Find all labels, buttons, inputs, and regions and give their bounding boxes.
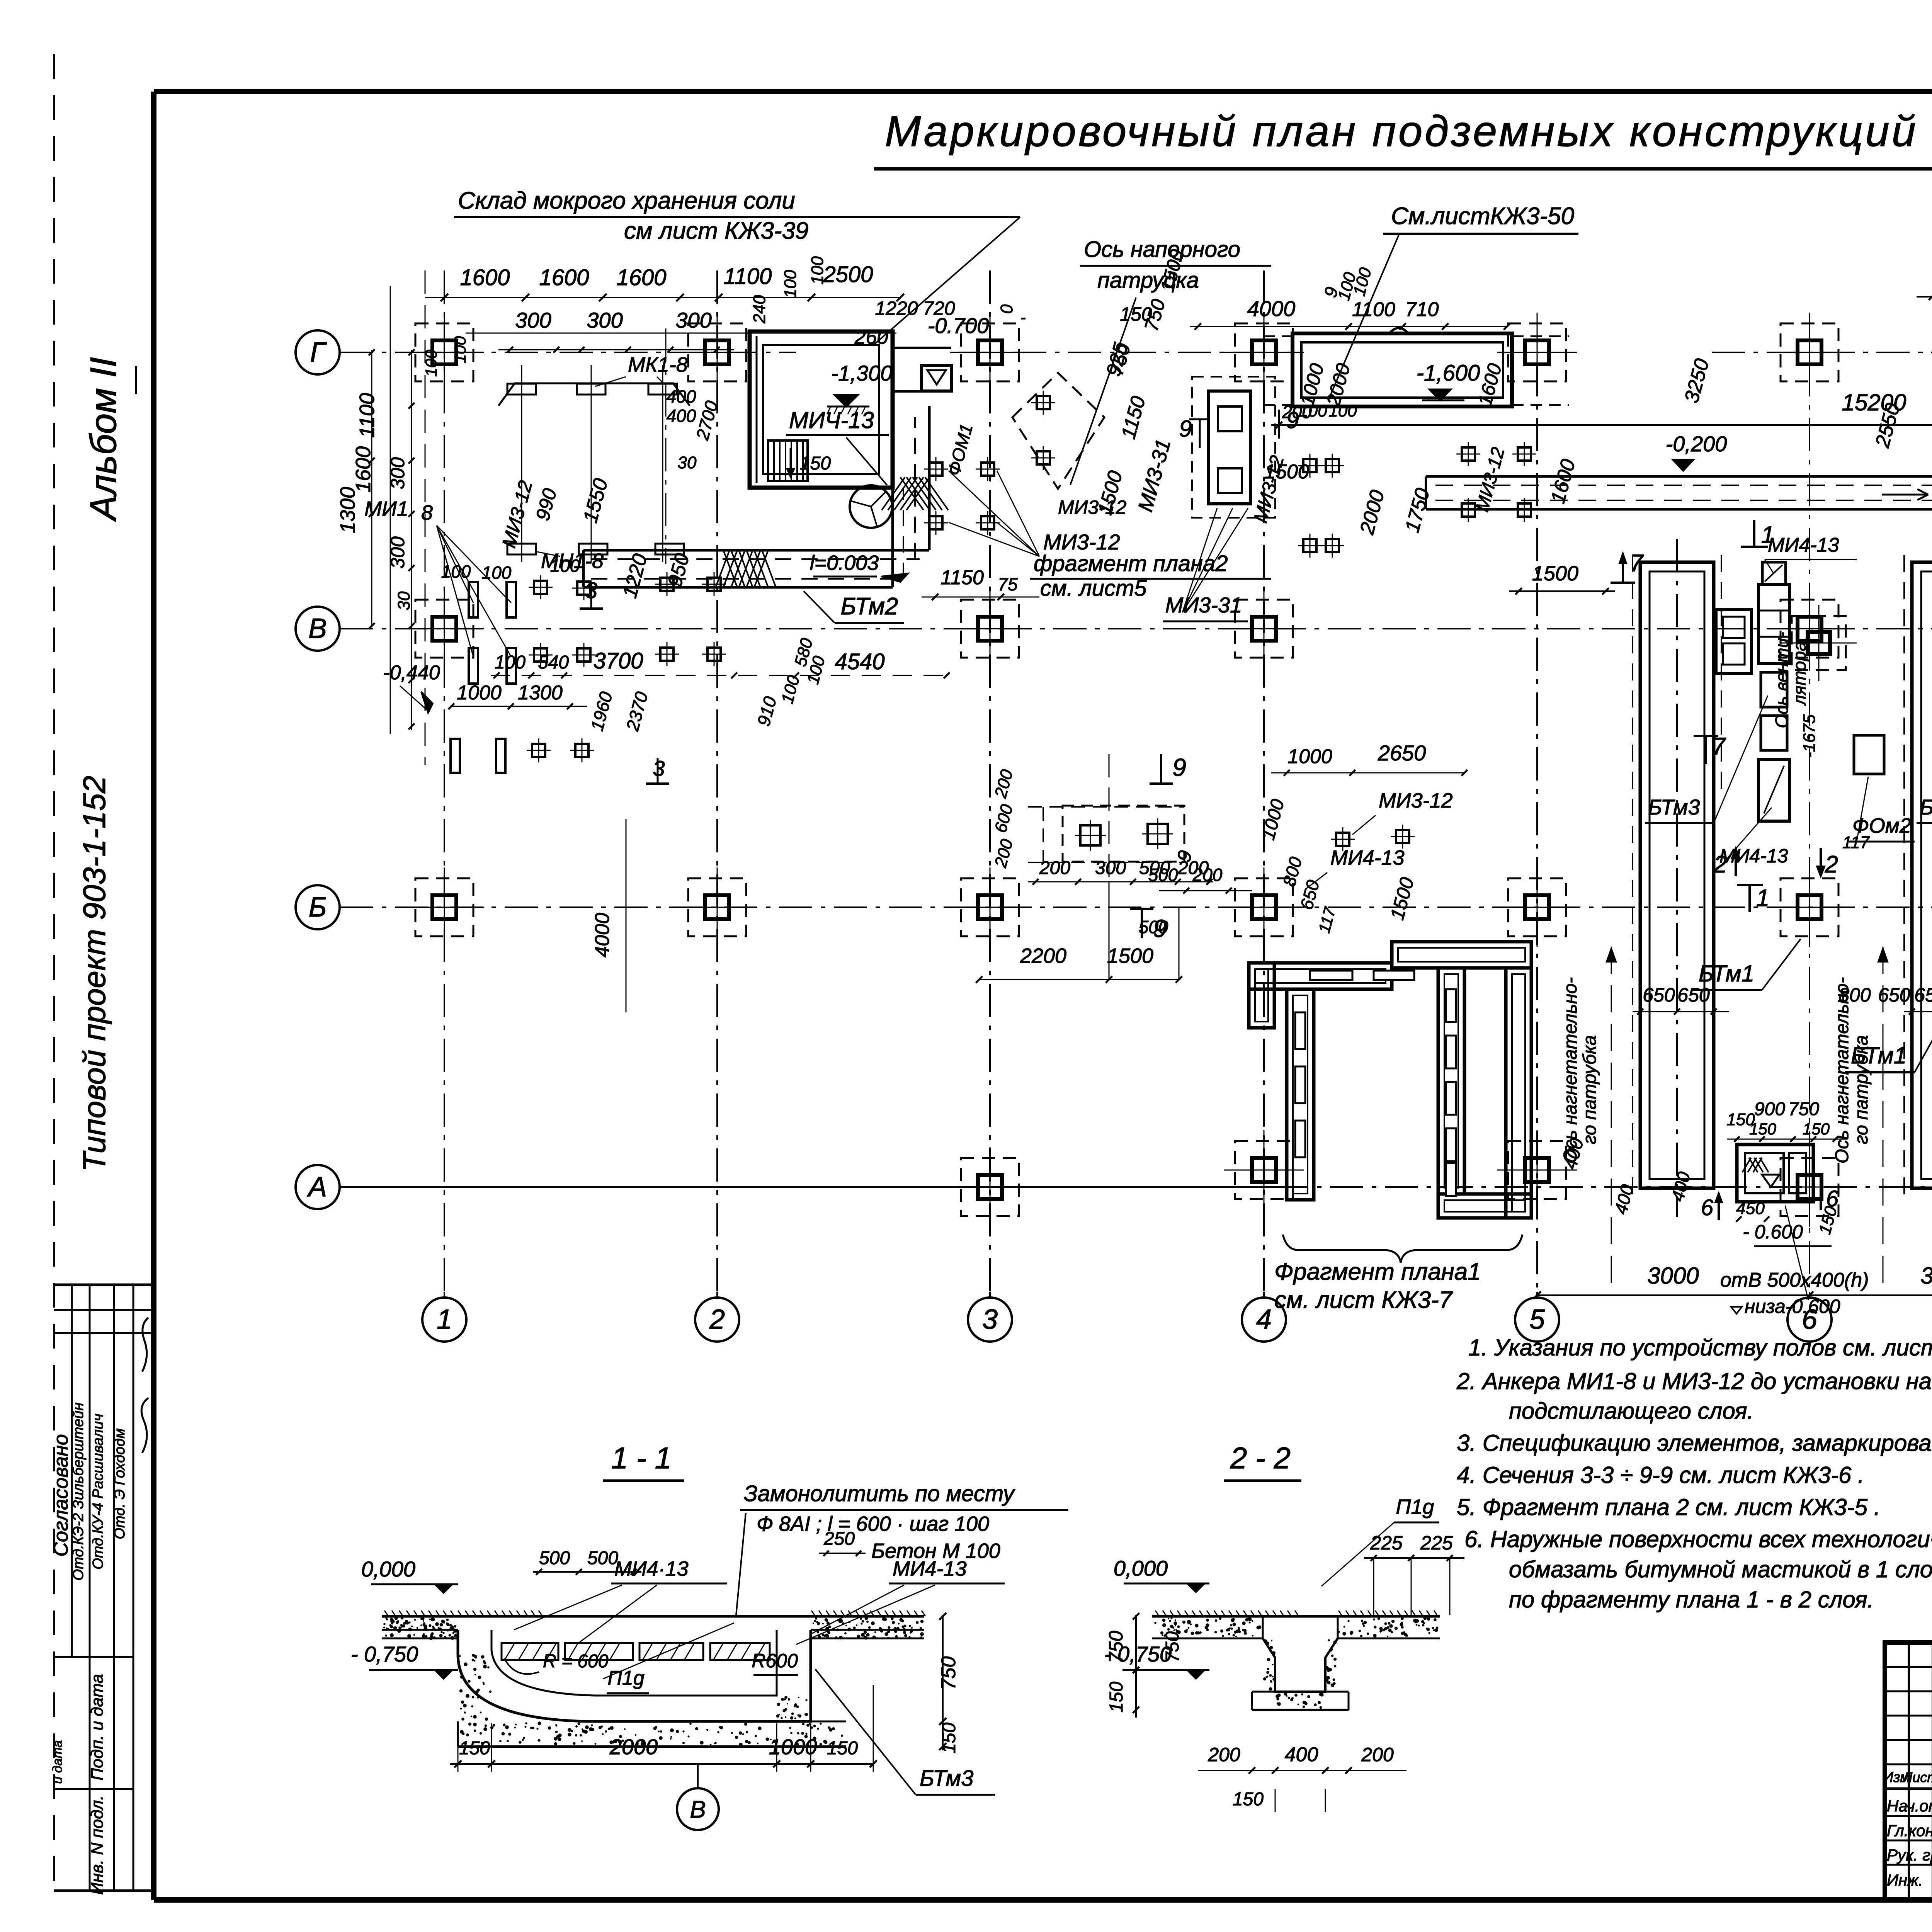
svg-text:150: 150: [939, 1723, 959, 1753]
svg-text:R = 600: R = 600: [543, 1651, 609, 1672]
svg-text:П1g: П1g: [1396, 1495, 1434, 1519]
svg-text:2650: 2650: [1378, 741, 1426, 765]
svg-text:МИ4-13: МИ4-13: [893, 1557, 967, 1580]
svg-text:650: 650: [1878, 984, 1910, 1006]
svg-text:БТм1: БТм1: [1851, 1043, 1906, 1068]
svg-text:МИ4-13: МИ4-13: [1768, 534, 1839, 556]
svg-text:Рук. гр.: Рук. гр.: [1887, 1846, 1932, 1864]
svg-text:800: 800: [1838, 984, 1871, 1006]
svg-text:9: 9: [1172, 753, 1186, 781]
svg-text:Лист: Лист: [1902, 1769, 1932, 1785]
svg-text:200: 200: [1192, 865, 1223, 885]
svg-text:П1g: П1g: [607, 1667, 645, 1689]
svg-text:4. Сечения 3-3 ÷ 9-9 см. лист: 4. Сечения 3-3 ÷ 9-9 см. лист КЖ3-6 .: [1457, 1462, 1864, 1488]
svg-text:200: 200: [1361, 1744, 1394, 1765]
svg-text:Инв. N подл.: Инв. N подл.: [88, 1795, 107, 1895]
svg-text:4540: 4540: [835, 649, 884, 674]
svg-text:Фрагмент плана1: Фрагмент плана1: [1274, 1259, 1481, 1285]
svg-text:3700: 3700: [593, 648, 643, 673]
svg-text:l=0.003: l=0.003: [810, 551, 879, 575]
svg-text:8: 8: [421, 501, 433, 524]
svg-text:2. Анкера МИ1-8 и МИ3-12 до ус: 2. Анкера МИ1-8 и МИ3-12 до установки на…: [1456, 1368, 1932, 1394]
svg-text:0: 0: [997, 304, 1016, 314]
svg-text:100: 100: [550, 556, 580, 576]
svg-text:Г: Г: [310, 337, 327, 368]
svg-text:117: 117: [1842, 833, 1870, 852]
svg-text:400: 400: [667, 386, 696, 406]
svg-text:150: 150: [1120, 303, 1152, 325]
svg-text:150: 150: [1803, 1120, 1830, 1138]
svg-text:-0.700: -0.700: [928, 313, 989, 338]
svg-text:500: 500: [539, 1548, 570, 1568]
svg-text:Альбом II: Альбом II: [83, 357, 124, 522]
svg-text:Ось нагнетательно-: Ось нагнетательно-: [1560, 977, 1581, 1163]
svg-text:300: 300: [587, 308, 622, 332]
svg-text:См.листКЖ3-50: См.листКЖ3-50: [1391, 203, 1574, 230]
svg-text:патрудка: патрудка: [1097, 268, 1199, 293]
svg-text:250: 250: [823, 1529, 855, 1549]
svg-text:БТм1: БТм1: [1699, 961, 1754, 986]
svg-text:МИ1: МИ1: [364, 497, 408, 520]
svg-text:В: В: [308, 613, 327, 644]
svg-text:МИ4-13: МИ4-13: [1330, 846, 1405, 869]
svg-text:4000: 4000: [591, 913, 614, 957]
svg-text:2: 2: [709, 1304, 725, 1335]
svg-text:4000: 4000: [1247, 296, 1296, 321]
svg-text:-: -: [1020, 309, 1026, 326]
svg-text:2: 2: [1713, 851, 1727, 878]
svg-text:Типовой проект 903-1-152: Типовой проект 903-1-152: [77, 776, 112, 1172]
svg-text:150: 150: [1749, 1120, 1777, 1138]
svg-text:1600: 1600: [616, 265, 666, 290]
svg-text:3: 3: [653, 756, 665, 781]
svg-text:1300: 1300: [336, 487, 359, 533]
svg-text:0,000: 0,000: [361, 1557, 415, 1581]
svg-text:Маркировочный план подземн: Маркировочный план подземных конструкций: [885, 107, 1918, 155]
svg-text:R600: R600: [752, 1650, 798, 1672]
svg-text:150: 150: [800, 453, 831, 474]
svg-text:300: 300: [1095, 858, 1126, 878]
svg-text:2000: 2000: [609, 1735, 658, 1759]
svg-text:750: 750: [1788, 1099, 1819, 1119]
svg-text:750: 750: [937, 1656, 960, 1690]
svg-text:Ось венти-: Ось венти-: [1772, 632, 1792, 728]
svg-text:4: 4: [1256, 1304, 1272, 1335]
svg-text:-0,440: -0,440: [383, 662, 440, 684]
svg-text:100: 100: [781, 270, 800, 298]
svg-text:отВ 500х400(h): отВ 500х400(h): [1720, 1269, 1869, 1291]
svg-text:обмазать битумной мастикой: обмазать битумной мастикой в 1 слой, эле…: [1509, 1556, 1932, 1582]
svg-text:750: 750: [1105, 1631, 1127, 1663]
svg-text:- 0,750: - 0,750: [351, 1642, 418, 1666]
svg-text:500: 500: [1139, 917, 1168, 937]
svg-text:см. лист КЖ3-7: см. лист КЖ3-7: [1274, 1287, 1453, 1313]
svg-text:150: 150: [1233, 1789, 1264, 1810]
svg-text:240: 240: [750, 295, 769, 324]
svg-text:Инж.: Инж.: [1887, 1871, 1923, 1889]
svg-text:500: 500: [1148, 865, 1178, 885]
svg-text:-0,200: -0,200: [1666, 432, 1727, 456]
svg-text:БТм3: БТм3: [1648, 795, 1700, 819]
svg-text:1500: 1500: [1107, 944, 1153, 968]
svg-text:2: 2: [1825, 851, 1838, 878]
svg-text:200: 200: [1039, 858, 1070, 878]
svg-text:400: 400: [667, 406, 696, 426]
svg-text:1100: 1100: [355, 393, 379, 438]
svg-text:100: 100: [422, 349, 440, 377]
svg-text:см лист КЖ3-39: см лист КЖ3-39: [624, 218, 809, 244]
svg-text:БТм2: БТм2: [840, 593, 898, 620]
svg-text:-1,300: -1,300: [831, 361, 893, 385]
svg-text:-1675: -1675: [1800, 714, 1819, 758]
svg-text:300: 300: [675, 308, 711, 332]
svg-text:100: 100: [451, 336, 469, 363]
svg-text:1 - 1: 1 - 1: [611, 1441, 672, 1475]
svg-text:1600: 1600: [460, 265, 510, 290]
svg-text:1100: 1100: [1352, 298, 1395, 321]
svg-text:МИ4·13: МИ4·13: [614, 1557, 689, 1580]
svg-text:100: 100: [808, 256, 827, 285]
svg-text:Гл.констр: Гл.констр: [1887, 1821, 1932, 1840]
svg-text:Ось напорного: Ось напорного: [1084, 237, 1240, 262]
svg-text:по фрагменту плана 1 - в 2: по фрагменту плана 1 - в 2 слоя.: [1509, 1587, 1874, 1612]
svg-text:100: 100: [482, 563, 512, 583]
svg-text:450: 450: [1736, 1199, 1765, 1218]
svg-text:1500: 1500: [1532, 562, 1578, 585]
svg-text:1300: 1300: [518, 682, 563, 704]
svg-text:100: 100: [495, 652, 526, 673]
svg-text:МИ3-12: МИ3-12: [1379, 789, 1453, 812]
svg-text:го патрубка: го патрубка: [1580, 1035, 1600, 1144]
svg-text:150: 150: [1106, 1682, 1127, 1713]
svg-text:1: 1: [1761, 522, 1774, 548]
svg-text:1. Указания по устройству по: 1. Указания по устройству полов см. лист…: [1468, 1335, 1932, 1361]
svg-text:А: А: [307, 1172, 327, 1202]
svg-text:650: 650: [1914, 984, 1932, 1006]
svg-text:225: 225: [1420, 1532, 1453, 1554]
svg-text:1: 1: [437, 1304, 452, 1335]
svg-text:540: 540: [538, 652, 569, 673]
svg-text:Б: Б: [309, 892, 327, 923]
svg-text:1220: 1220: [875, 298, 918, 319]
svg-text:1100: 1100: [724, 264, 772, 289]
svg-text:1600: 1600: [539, 265, 589, 290]
svg-text:200: 200: [1207, 1744, 1240, 1765]
svg-text:710: 710: [1405, 298, 1439, 321]
svg-text:Замонолитить по месту: Замонолитить по месту: [744, 1481, 1015, 1506]
svg-text:2500: 2500: [823, 262, 873, 287]
svg-text:см. лист5: см. лист5: [1040, 576, 1147, 601]
svg-text:Ф 8АI ; l = 600 · шаг 10: Ф 8АI ; l = 600 · шаг 100: [757, 1512, 989, 1536]
svg-text:0,000: 0,000: [1114, 1556, 1168, 1580]
svg-text:1000: 1000: [457, 682, 502, 704]
svg-text:500: 500: [587, 1548, 618, 1568]
svg-text:5. Фрагмент плана 2 см. л: 5. Фрагмент плана 2 см. лист КЖ3-5 .: [1457, 1494, 1880, 1520]
svg-text:1000: 1000: [1287, 745, 1332, 768]
svg-text:Согласовано: Согласовано: [50, 1434, 72, 1556]
svg-text:-1,600: -1,600: [1417, 361, 1480, 386]
svg-text:400: 400: [1285, 1743, 1318, 1766]
svg-text:30: 30: [395, 591, 413, 610]
svg-text:1000: 1000: [769, 1735, 817, 1759]
svg-text:100: 100: [441, 561, 471, 582]
svg-text:30: 30: [678, 453, 697, 472]
svg-text:МИ3-31: МИ3-31: [1165, 593, 1242, 617]
svg-text:5: 5: [1529, 1304, 1545, 1335]
svg-text:2200: 2200: [1020, 944, 1066, 968]
svg-text:3: 3: [982, 1304, 998, 1335]
svg-text:лятора: лятора: [1789, 641, 1810, 706]
svg-text:Склад мокрого хранения соли: Склад мокрого хранения соли: [458, 187, 795, 214]
svg-text:900: 900: [1754, 1099, 1785, 1119]
svg-text:БТм3: БТм3: [920, 1766, 973, 1791]
svg-text:В: В: [690, 1796, 706, 1823]
svg-text:Подп. и дата: Подп. и дата: [88, 1674, 107, 1780]
svg-text:650: 650: [1643, 984, 1675, 1006]
svg-text:150: 150: [459, 1738, 490, 1759]
svg-text:2 - 2: 2 - 2: [1230, 1441, 1291, 1475]
svg-text:Нач.отд.: Нач.отд.: [1887, 1797, 1932, 1815]
svg-text:650: 650: [1677, 984, 1710, 1006]
svg-text:МИ3-12: МИ3-12: [1043, 530, 1120, 554]
svg-text:1500: 1500: [1264, 461, 1309, 483]
svg-text:БТм3: БТм3: [1920, 795, 1932, 819]
svg-text:МК1-8: МК1-8: [628, 353, 688, 376]
svg-text:1150: 1150: [940, 566, 984, 589]
svg-text:75: 75: [998, 574, 1018, 594]
svg-text:Отд. Э Гохдодм: Отд. Э Гохдодм: [112, 1429, 128, 1539]
svg-text:Отд.КЭ-2 Зильберштейн: Отд.КЭ-2 Зильберштейн: [70, 1402, 87, 1580]
svg-text:3000: 3000: [1647, 1263, 1699, 1289]
svg-text:3000: 3000: [1920, 1263, 1932, 1289]
svg-text:Отд.КУ-4 Расшивалич: Отд.КУ-4 Расшивалич: [90, 1413, 106, 1569]
svg-text:225: 225: [1370, 1532, 1403, 1554]
svg-text:3. Спецификацию элементов, за: 3. Спецификацию элементов, замаркированн…: [1457, 1430, 1932, 1456]
svg-text:150: 150: [827, 1738, 858, 1759]
svg-text:и дата: и дата: [50, 1740, 65, 1784]
svg-text:750: 750: [1162, 1631, 1183, 1662]
svg-text:6. Наружные поверхности всех: 6. Наружные поверхности всех технологиче…: [1464, 1526, 1932, 1552]
svg-text:1: 1: [1756, 885, 1769, 912]
svg-text:МИЧ-13: МИЧ-13: [789, 407, 874, 433]
svg-text:6: 6: [1701, 1195, 1714, 1220]
svg-text:подстилающего слоя.: подстилающего слоя.: [1509, 1398, 1753, 1424]
svg-text:низа-0.600: низа-0.600: [1745, 1296, 1840, 1317]
svg-text:300: 300: [515, 308, 551, 332]
